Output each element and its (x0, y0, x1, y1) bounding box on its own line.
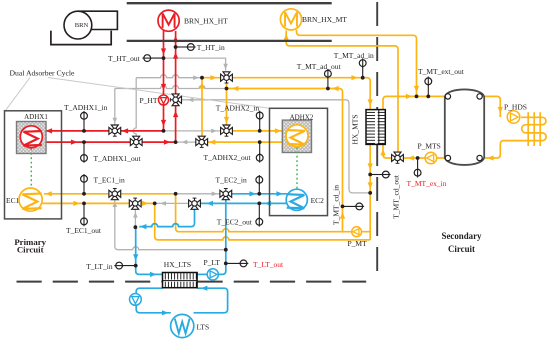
sensor T_EC2_in (258, 180, 260, 194)
valve VE (196, 139, 201, 146)
burner BRN blower symbol (78, 11, 118, 29)
wire yellow BRN_HX_MT inlet riser (286, 31, 398, 153)
wire red HT supply riser x=163.5 (163, 31, 165, 131)
svg-text:T_HT_out: T_HT_out (108, 54, 141, 63)
leader line to ADHX2 box (48, 78, 270, 109)
tank port (477, 94, 482, 99)
wire gray valve VF bottom riser to LT junction (115, 200, 226, 250)
green link ADHX1-EC1 (30, 149, 32, 188)
sensor T_EC1_in (83, 179, 85, 194)
wire yellow EC1 return line y=239.9 (155, 203, 371, 240)
heat exchanger HX_LTS (163, 273, 198, 288)
valve VI (221, 74, 226, 81)
wire yellow valve VK to tank via P_MTS (403, 157, 445, 159)
svg-text:T_EC1_out: T_EC1_out (66, 226, 102, 235)
wire yellow L1 to ADHX2 (232, 130, 283, 132)
heat exchanger LTS (171, 314, 194, 337)
wire blue EC2 inlet segment (232, 193, 287, 195)
pump P_LT (207, 269, 218, 280)
svg-text:P_MT: P_MT (348, 239, 368, 248)
valve VA (109, 127, 114, 134)
svg-text:Dual Adsorber Cycle: Dual Adsorber Cycle (10, 68, 75, 77)
sensor T_EC2_out (258, 203, 260, 221)
wire red L1 ADHX1 inlet (43, 130, 163, 132)
junction dots (162, 56, 166, 60)
svg-text:T_ADHX2_out: T_ADHX2_out (204, 153, 252, 162)
pump LT loop (130, 294, 142, 306)
heat exchanger ADHX1 (20, 126, 42, 148)
sensor T_HT_out (147, 57, 163, 59)
sensor T_MT_cd_out (370, 174, 386, 176)
pump P_HT (159, 95, 169, 105)
storage tank (445, 89, 484, 165)
heat exchanger BRN_HX_HT (158, 10, 179, 31)
wire blue P_LT to HX_LTS (197, 273, 207, 275)
valve VD (221, 127, 226, 134)
heat exchanger BRN_HX_MT (280, 9, 301, 30)
pump P_HDS (507, 111, 520, 124)
wire blue valve VJ riser to P_LT corner (225, 200, 227, 271)
wire red HT return riser x=175.6 (175, 31, 177, 142)
ADHX2 hatched adsorber block (282, 120, 311, 152)
svg-text:ADHX1: ADHX1 (24, 113, 48, 121)
svg-text:T_MT_cd_out: T_MT_cd_out (391, 174, 400, 219)
wire blue LT supply riser to HX_LTS (135, 227, 137, 271)
valve VG (129, 200, 134, 207)
boundary dashed vertical (primary/secondary split) (376, 2, 378, 280)
wire yellow HX_MTS secondary bottom to valve VK (383, 144, 392, 158)
sensor T_ADHX2_out (259, 142, 261, 158)
svg-text:ADHX2: ADHX2 (290, 114, 314, 122)
pump P_MTS (425, 152, 437, 164)
svg-text:T_ADHX1_out: T_ADHX1_out (94, 154, 142, 163)
svg-text:T_MT_cd_in: T_MT_cd_in (331, 185, 340, 225)
svg-text:T_MT_ad_in: T_MT_ad_in (334, 51, 374, 60)
svg-text:T_HT_in: T_HT_in (197, 43, 225, 52)
radiator HDS coil (521, 117, 546, 140)
valve VF (109, 190, 114, 197)
heat exchanger HX_MTS (366, 110, 385, 145)
wire blue LT secondary loop (136, 288, 171, 313)
wire yellow P_MT line y=231.7 (176, 194, 371, 232)
sensor T_MT_ex_in (417, 158, 419, 173)
sensor T_LT_in (119, 265, 136, 267)
wire gray L2 middle segment (176, 141, 196, 143)
svg-text:Secondary: Secondary (442, 231, 483, 241)
wire yellow valve VI bottom to valve VD top (226, 83, 228, 125)
burner base bracket (51, 31, 111, 45)
valve VH (189, 200, 194, 207)
wire gray T_HT_out line to valve VI top (164, 58, 226, 71)
wire blue valve VH bottom loop (139, 210, 194, 227)
pump P_MT (352, 227, 362, 237)
wire gray valve VG bottom riser (134, 210, 136, 228)
wire yellow L2 from ADHX2 (208, 141, 287, 143)
ADHX1/EC1 module box (5, 111, 62, 219)
wire yellow EC1 inlet line y=193.8 (44, 193, 176, 195)
wire gray L3 middle segment (176, 193, 220, 195)
svg-text:P_LT: P_LT (204, 258, 221, 267)
sensor T_ADHX2_in (259, 116, 261, 131)
heat exchanger EC1 (19, 188, 42, 211)
wire yellow EC1 outlet line y=203.4 (43, 202, 155, 204)
valve VJ (220, 190, 225, 197)
heat exchanger EC2 (286, 189, 307, 210)
tank port (477, 155, 482, 160)
wire yellow valve VE top riser (201, 78, 203, 137)
sensor T_LT_out (226, 262, 244, 264)
svg-text:P_HDS: P_HDS (504, 103, 527, 112)
tank port (445, 155, 450, 160)
ADHX1 hatched adsorber block (17, 122, 47, 154)
wire gray L4 middle segment (155, 202, 189, 204)
svg-text:T_ADHX2_in: T_ADHX2_in (216, 104, 260, 113)
leader line to ADHX1 box (6, 78, 31, 111)
wire yellow tank to P_HDS (482, 96, 500, 117)
svg-text:Circuit: Circuit (17, 245, 44, 255)
sensor T_MT_ad_in (362, 63, 364, 78)
valve VC (172, 94, 179, 99)
tank port (445, 94, 450, 99)
svg-text:BRN_HX_MT: BRN_HX_MT (302, 15, 347, 24)
sensor T_MT_ext_out (427, 81, 429, 96)
wire yellow HX_MTS bottom-left to P_MT corner (369, 144, 371, 240)
wire red L2 ADHX1 outlet (42, 141, 176, 143)
valve VB (130, 139, 135, 146)
wire yellow jog down into HX_MTS top (363, 78, 371, 110)
wire gray valve VC right to condenser line (182, 100, 370, 193)
svg-text:Circuit: Circuit (448, 244, 475, 254)
flue duct lower line (127, 40, 332, 42)
flue duct upper line (127, 2, 332, 4)
svg-text:EC1: EC1 (6, 196, 20, 205)
svg-text:T_MT_ad_out: T_MT_ad_out (297, 62, 342, 71)
sensor T_EC1_out (83, 203, 85, 221)
svg-text:T_ADHX1_in: T_ADHX1_in (64, 103, 108, 112)
wire gray upper bus y=77.7 (corner down to valve VB top) (133, 78, 136, 136)
sensor T_MT_cd_in (343, 205, 360, 207)
wire yellow BRN_HX_MT outlet to storage (297, 30, 417, 96)
wire yellow HX_MTS secondary top to tank (383, 96, 445, 109)
svg-text:T_MT_ex_in: T_MT_ex_in (407, 179, 447, 188)
svg-text:T_LT_in: T_LT_in (86, 262, 113, 271)
svg-text:BRN_HX_HT: BRN_HX_HT (184, 16, 228, 25)
wire yellow condenser riser x=342.5 (227, 89, 342, 232)
svg-text:T_LT_out: T_LT_out (253, 260, 284, 269)
svg-text:T_MT_ext_out: T_MT_ext_out (418, 67, 465, 76)
sensor T_MT_ad_out (327, 74, 329, 89)
wire yellow radiator return to tank (485, 141, 521, 158)
wire yellow bus y=77.7 to T_MT_ad_in (202, 77, 363, 79)
svg-text:HX_MTS: HX_MTS (351, 114, 360, 144)
ADHX2/EC2 module box (270, 108, 328, 215)
wire gray L1 middle segment (164, 130, 221, 132)
valve VK (392, 155, 397, 162)
boundary dashed horizontal (17, 281, 367, 283)
svg-text:HX_LTS: HX_LTS (164, 260, 191, 269)
svg-text:BRN: BRN (75, 22, 89, 29)
heat exchanger ADHX2 (286, 125, 308, 147)
sensor T_HT_in (176, 46, 191, 48)
svg-text:P_MTS: P_MTS (418, 142, 441, 151)
wire blue EC2 outlet segment (201, 202, 288, 204)
svg-text:LTS: LTS (197, 322, 210, 331)
svg-text:P_HT: P_HT (140, 96, 158, 105)
sensor T_ADHX1_in (83, 116, 85, 131)
svg-text:T_EC2_in: T_EC2_in (216, 176, 247, 185)
svg-text:T_EC2_out: T_EC2_out (217, 218, 253, 227)
svg-text:EC2: EC2 (311, 196, 325, 205)
wire gray bus y=88.5 (corner down to valve VA top) (114, 89, 116, 125)
green link ADHX2-EC2 (296, 147, 298, 189)
svg-text:T_EC1_in: T_EC1_in (94, 176, 125, 185)
sensor T_ADHX1_out (83, 142, 85, 158)
